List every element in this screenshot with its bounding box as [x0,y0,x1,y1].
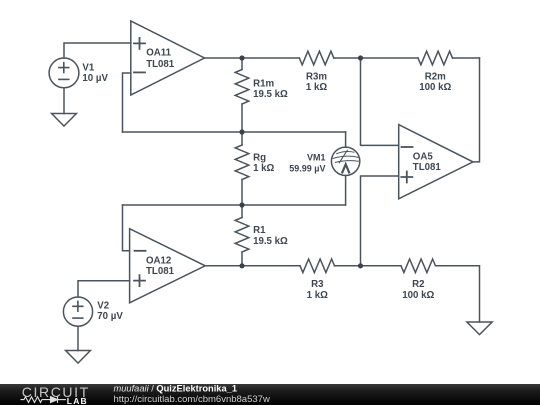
label R2 100 kΩ [402,279,434,301]
junction at OA11 output / R1m top [239,55,244,60]
wire mid row y=132 [123,131,346,133]
ground right [467,322,492,335]
svg-text:V2: V2 [97,301,109,312]
wire V2 bottom to ground [77,326,79,350]
label OA11 TL081 [146,48,175,70]
svg-text:70 µV: 70 µV [97,311,123,322]
svg-text:R3m: R3m [306,72,327,83]
wire OA12 inverting feedback [123,205,130,251]
svg-text:100 kΩ: 100 kΩ [402,290,434,301]
svg-text:100 kΩ: 100 kΩ [419,82,451,93]
wire R2 to ground [436,266,480,322]
resistor Rg [235,132,249,205]
ground below V1 [52,114,77,127]
svg-text:1 kΩ: 1 kΩ [253,163,274,174]
svg-text:VM1: VM1 [307,152,326,162]
label OA5 TL081 [413,151,442,173]
svg-text:OA5: OA5 [413,151,434,162]
svg-text:TL081: TL081 [146,59,175,70]
label R1m 19.5 kΩ [253,79,288,101]
wire OA12 output row to R2 [335,265,402,267]
label V1 10 µV [82,63,108,85]
wire junction bottom to OA5 + input [361,176,399,266]
wire OA11 inverting feedback [123,73,131,132]
op-amp OA12 [130,229,206,303]
wire V1 bottom to ground [63,88,65,114]
wire junction top to OA5 - input [361,58,399,145]
svg-text:1 kΩ: 1 kΩ [307,290,328,301]
svg-text:V1: V1 [82,63,94,74]
svg-text:TL081: TL081 [413,162,442,173]
svg-text:10 µV: 10 µV [82,73,108,84]
junction R3m-R2m node [358,55,363,60]
svg-text:OA11: OA11 [146,48,171,59]
wire R3m to R2m [334,57,418,59]
resistor R1 [235,205,249,266]
resistor R1m [235,58,249,132]
wire mid row y=205 [123,204,346,206]
svg-text:R1: R1 [253,225,266,236]
voltmeter VM1 [331,147,359,175]
logo resistor-diode glyph [21,396,67,402]
resistor R2 [401,259,436,273]
junction Rg bottom / row y205 [239,202,244,207]
wire VM1 top stub [345,132,347,147]
wire VM1 bottom stub [345,176,347,206]
svg-text:muufaaii / QuizElektronika_1: muufaaii / QuizElektronika_1 [114,384,238,394]
op-amp OA5 [399,125,473,199]
junction R1m bottom / mid row [239,129,244,134]
resistor R3m [299,51,334,65]
svg-text:59.99 µV: 59.99 µV [289,163,325,173]
svg-text:http://circuitlab.com/cbm6vnb8: http://circuitlab.com/cbm6vnb8a537w [114,394,270,405]
wire output column vertical [473,58,480,162]
voltage source V2 [63,297,92,326]
wire R2m to output column [453,57,480,59]
resistor R3 [300,259,335,273]
label VM1 59.99 µV [289,152,325,173]
svg-text:R3: R3 [311,279,324,290]
label R2m 100 kΩ [419,72,451,94]
junction R3-R2 node [358,263,363,268]
label OA12 TL081 [146,256,175,278]
wire V2 top to OA12 + input [78,281,130,297]
svg-text:R2m: R2m [425,72,446,83]
footer bar [0,384,540,405]
svg-text:R1m: R1m [253,79,274,90]
wire OA12 output to R3 [205,265,300,267]
svg-text:OA12: OA12 [146,256,171,267]
svg-text:Rg: Rg [253,153,266,164]
svg-text:19.5 kΩ: 19.5 kΩ [253,236,288,247]
wire OA11 output to R3m [205,57,300,59]
label R3 1 kΩ [307,279,328,301]
resistor R2m [418,51,453,65]
junction R1 bottom / OA12 output [239,263,244,268]
svg-text:TL081: TL081 [146,266,175,277]
op-amp OA11 [131,21,205,95]
svg-text:1 kΩ: 1 kΩ [306,82,327,93]
svg-text:R2: R2 [412,279,424,290]
wire V1 top to OA11 + input [64,43,131,58]
ground below V2 [66,351,91,364]
label R3m 1 kΩ [306,72,328,94]
svg-text:19.5 kΩ: 19.5 kΩ [253,89,288,100]
voltage source V1 [49,58,79,88]
label R1 19.5 kΩ [253,225,288,247]
label Rg 1 kΩ [253,153,274,174]
label V2 70 µV [97,301,123,323]
svg-text:LAB: LAB [67,396,88,405]
